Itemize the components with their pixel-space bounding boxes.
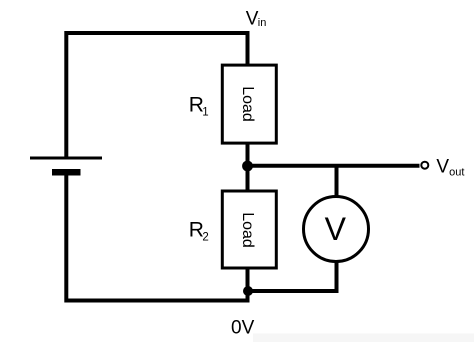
svg-text:in: in <box>258 17 267 29</box>
svg-text:Load: Load <box>239 86 256 122</box>
svg-text:Load: Load <box>239 212 256 248</box>
svg-text:out: out <box>449 166 464 178</box>
svg-text:V: V <box>325 211 347 247</box>
svg-text:1: 1 <box>202 106 208 118</box>
svg-text:V: V <box>436 157 449 178</box>
svg-text:2: 2 <box>202 231 208 243</box>
svg-text:0V: 0V <box>231 318 255 339</box>
